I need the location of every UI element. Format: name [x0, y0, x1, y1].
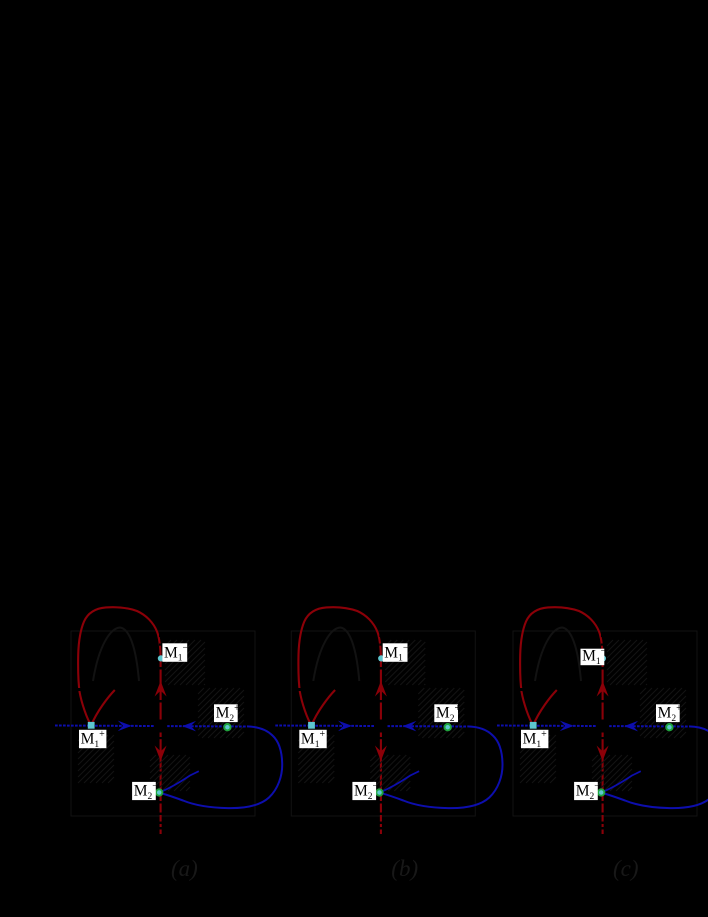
label M1- panel a — [162, 643, 188, 664]
ghost axes frame panel a — [71, 631, 255, 816]
ghost inner curve panel a — [93, 628, 139, 682]
marker M1+ panel b — [308, 722, 315, 729]
marker M2+ panel b — [445, 724, 451, 730]
red arrowhead up panel a — [155, 681, 167, 697]
blue arrowhead left panel c — [624, 721, 638, 732]
red manifold lower dash panel b — [380, 830, 382, 835]
label M2- panel c — [574, 781, 600, 802]
red manifold lower dash panel a — [160, 830, 162, 835]
red arrowhead down panel c — [597, 746, 609, 762]
marker M2- panel b — [376, 789, 382, 795]
marker M1+ panel c — [530, 722, 537, 729]
blue manifold loop panel a — [159, 726, 282, 808]
svg-text:(b): (b) — [391, 856, 418, 881]
blue arrowhead right panel c — [560, 721, 574, 732]
blue stable manifold dashed axis panel a — [55, 726, 247, 727]
marker M1- panel c — [600, 655, 606, 661]
marker M2+ panel c — [666, 724, 672, 730]
marker M1- panel b — [378, 655, 384, 661]
label M2- panel a — [132, 781, 158, 802]
label M1- panel c — [581, 646, 607, 667]
blue stable manifold dashed axis panel b — [275, 726, 467, 727]
blue stable manifold dashed axis panel c — [497, 726, 689, 727]
red arrowhead down panel a — [155, 746, 167, 762]
label M1+ panel b — [299, 729, 326, 750]
origin saddle point panel a — [154, 720, 167, 733]
red arrowhead up panel b — [375, 681, 387, 697]
blue arrowhead left panel b — [402, 721, 416, 732]
red manifold lower dash panel c — [602, 830, 604, 835]
ghost inner curve panel c — [535, 628, 581, 682]
blue arrowhead right panel a — [118, 721, 132, 732]
ghost hatching panel b — [298, 640, 464, 791]
ghost hatching panel c — [520, 640, 686, 791]
label M1- panel b — [383, 643, 409, 664]
blue trajectory tail panel c — [601, 771, 641, 792]
blue trajectory tail panel b — [380, 771, 420, 792]
blue trajectory tail panel a — [159, 771, 199, 792]
red unstable manifold loop panel b — [298, 607, 381, 827]
marker M2- panel c — [598, 789, 604, 795]
origin saddle point panel b — [375, 720, 388, 733]
red arrowhead up panel c — [597, 681, 609, 697]
label M2+ panel c — [656, 703, 682, 724]
blue arrowhead right panel b — [338, 721, 352, 732]
blue arrowhead left panel a — [182, 721, 196, 732]
label M2- panel b — [352, 781, 378, 802]
blue manifold loop panel b — [380, 726, 503, 808]
red unstable manifold loop panel c — [520, 607, 603, 827]
ghost axes frame panel b — [291, 631, 475, 816]
marker M2- panel a — [156, 789, 162, 795]
label M1+ panel a — [79, 729, 106, 750]
ghost hatching panel a — [78, 640, 244, 791]
ghost inner curve panel b — [313, 628, 359, 682]
svg-text:(c): (c) — [613, 856, 639, 881]
black overlay gaps on red manifold panel b — [379, 635, 382, 638]
red unstable manifold loop panel a — [78, 607, 161, 827]
label M2+ panel a — [214, 703, 240, 724]
svg-text:(a): (a) — [171, 856, 198, 881]
label M2+ panel b — [434, 703, 460, 724]
red arrowhead down panel b — [375, 746, 387, 762]
ghost axes frame panel c — [513, 631, 697, 816]
origin saddle point panel c — [596, 720, 609, 733]
marker M1- panel a — [158, 655, 164, 661]
black overlay gaps on red manifold panel a — [159, 635, 162, 638]
marker M2+ panel a — [224, 724, 230, 730]
marker M1+ panel a — [88, 722, 95, 729]
blue manifold loop panel c — [601, 726, 708, 808]
label M1+ panel c — [521, 729, 548, 750]
black overlay gaps on red manifold panel c — [601, 635, 604, 638]
